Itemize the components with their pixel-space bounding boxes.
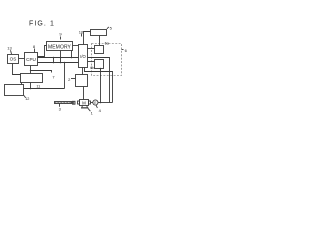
svg-text:10: 10: [79, 29, 84, 34]
svg-text:5: 5: [110, 25, 113, 30]
svg-text:6b: 6b: [90, 66, 94, 70]
svg-text:6: 6: [125, 48, 128, 53]
svg-text:M: M: [82, 100, 86, 105]
svg-text:1: 1: [91, 110, 94, 115]
svg-text:3: 3: [59, 106, 62, 111]
svg-text:CPU: CPU: [26, 57, 36, 62]
svg-text:7: 7: [52, 75, 55, 80]
svg-text:I/O: I/O: [80, 54, 86, 59]
svg-text:13: 13: [7, 46, 12, 51]
svg-text:MEMORY: MEMORY: [48, 44, 72, 50]
svg-text:9: 9: [59, 32, 62, 37]
svg-text:8: 8: [33, 44, 36, 49]
svg-text:FIG. 1: FIG. 1: [29, 20, 55, 27]
svg-text:11: 11: [36, 84, 40, 88]
svg-text:OS: OS: [10, 57, 17, 62]
svg-text:12: 12: [25, 97, 29, 101]
svg-text:2: 2: [68, 77, 71, 82]
svg-text:4: 4: [99, 108, 102, 113]
